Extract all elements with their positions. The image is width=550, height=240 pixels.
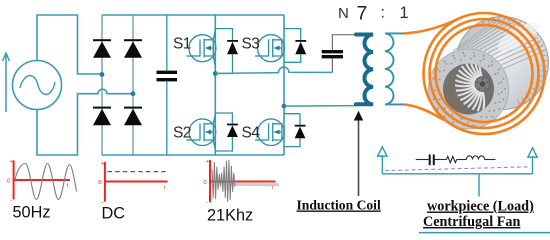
svg-text:t: t (164, 185, 166, 191)
plot 50Hz axes (14, 160, 70, 199)
plot DC dashed level (107, 171, 166, 173)
wire orange lead top (404, 19, 459, 34)
AC source V1 (13, 61, 62, 110)
node left leg midpoint (100, 72, 105, 77)
svg-text:workpiece (Load): workpiece (Load) (427, 199, 534, 215)
wire inverter left leg rail (214, 15, 216, 155)
diode DS4 antiparallel (284, 114, 306, 147)
svg-text:S3: S3 (242, 36, 260, 53)
wire inverter right leg rail (283, 15, 285, 155)
wire phase A output with hop (215, 67, 332, 73)
wire workpiece baseline (382, 173, 532, 175)
wire label connector (478, 174, 480, 197)
wire cap to resistor (434, 159, 447, 161)
plot DC axes (105, 162, 168, 202)
svg-text:Centrifugal Fan: Centrifugal Fan (423, 214, 520, 230)
workpiece arrow left (378, 147, 387, 174)
svg-text:0: 0 (7, 179, 10, 185)
wire RLC series lead (416, 159, 429, 161)
wire orange lead bottom (404, 105, 444, 121)
svg-text::: : (381, 5, 385, 22)
diode DS2 antiparallel (215, 113, 238, 151)
plot 21Khz axis labels (203, 159, 274, 206)
plot 21Khz axis shadow (231, 183, 279, 186)
svg-text:0: 0 (98, 180, 101, 186)
svg-text:t: t (67, 183, 69, 189)
fan highlight (494, 17, 543, 56)
svg-text:S4: S4 (242, 125, 261, 142)
arrow AC input (3, 53, 10, 112)
arrow induction coil pointer (354, 111, 363, 196)
svg-text:1: 1 (400, 4, 409, 22)
workpiece arrow right (528, 148, 537, 174)
plot DC axis labels (98, 161, 166, 206)
plot 21Khz burst waveform (212, 160, 235, 202)
fan barrel top streaks (453, 19, 545, 69)
wire inductor tail (485, 159, 496, 161)
wire rectifier left leg (101, 15, 103, 155)
svg-text:Induction Coil: Induction Coil (297, 198, 381, 213)
diode D1 (93, 39, 111, 58)
resistor R workpiece (447, 156, 457, 162)
op: MOSFET S4 (255, 119, 284, 146)
wire DC- bottom rail (102, 154, 284, 156)
workpiece dashed line (385, 167, 529, 171)
capacitor C workpiece (430, 155, 434, 166)
induction coil orange turns (424, 13, 545, 134)
diode D2 (93, 107, 111, 126)
wire bottom border (419, 232, 550, 234)
svg-text:+: + (101, 161, 105, 167)
capacitor C2 resonant (322, 35, 356, 73)
fan inner blades (455, 57, 484, 112)
op: MOSFET S3 (255, 35, 284, 62)
fan rim rivets (431, 52, 506, 126)
inductor L workpiece (467, 156, 485, 160)
svg-text:S2: S2 (173, 125, 191, 142)
svg-text:7: 7 (357, 2, 368, 24)
wire rectifier right leg (132, 15, 134, 155)
svg-text:S1: S1 (173, 36, 191, 53)
fan barrel blade slats (483, 17, 548, 105)
capacitor C1 DC-link (157, 15, 178, 155)
transformer secondary winding (385, 33, 404, 104)
node phase B (282, 104, 287, 109)
diode D4 (124, 107, 142, 126)
plot 50Hz sine curve (15, 164, 77, 200)
diode DS1 antiparallel (215, 29, 238, 74)
svg-text:50Hz: 50Hz (13, 204, 51, 222)
svg-text:DC: DC (102, 205, 126, 223)
op: MOSFET S2 (187, 114, 216, 150)
wire resistor to inductor (457, 159, 467, 161)
svg-text:0: 0 (203, 180, 206, 186)
wire phase B output (284, 105, 356, 108)
plot 50Hz axis labels (7, 159, 69, 204)
svg-text:-: - (206, 200, 208, 206)
svg-text:N: N (338, 5, 349, 22)
wire source bottom to right leg midpoint with hop (37, 89, 133, 155)
op: MOSFET S1 (187, 30, 216, 66)
fan front rim ring (429, 49, 509, 129)
fan photo: back disc (456, 17, 549, 110)
diode D3 (124, 39, 142, 58)
node right leg midpoint (131, 91, 136, 96)
node phase A (213, 71, 218, 76)
plot 21Khz axes (210, 160, 276, 202)
wire source top to left leg midpoint (37, 15, 102, 74)
diode DS3 antiparallel (284, 29, 306, 63)
wire DC+ top rail (102, 14, 284, 16)
transformer primary winding (356, 35, 373, 105)
fan hub (475, 77, 490, 92)
svg-text:21Khz: 21Khz (207, 207, 253, 225)
